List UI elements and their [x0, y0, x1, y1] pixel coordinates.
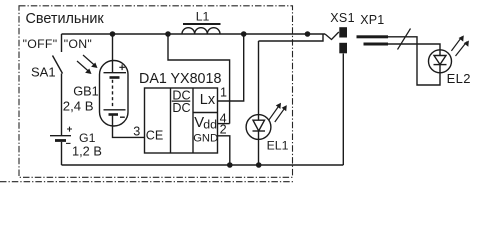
EL1 triangle [253, 120, 265, 131]
DA1 Lx cell divider [193, 112, 218, 114]
XS1 spring contact [325, 32, 339, 40]
GB1 dashed link [112, 80, 114, 107]
EL2 light arrows [451, 35, 469, 56]
wire pin2 GND drop [218, 136, 230, 165]
LED EL2 [429, 50, 452, 73]
svg-text:EL1: EL1 [267, 139, 289, 153]
wire EL1 anode to rail [259, 34, 324, 41]
EL2 cathode bar [434, 64, 447, 66]
XP1 upper pin [357, 35, 389, 38]
enclosure dash-dot box "Светильник" [19, 6, 293, 178]
node junction dot EL1 cathode on bottom rail [256, 162, 262, 168]
node junction dot GB1 top [110, 31, 116, 37]
L1 core bar [183, 23, 221, 25]
svg-text:XS1: XS1 [330, 11, 355, 25]
svg-text:dd: dd [203, 118, 217, 132]
XS1 lower contact block [339, 43, 347, 54]
G1 plus sign [67, 127, 72, 132]
node junction dot Lx riser [241, 31, 247, 37]
cable slash mark [398, 29, 411, 50]
DA1 left column divider [170, 88, 172, 153]
EL1 light arrows [269, 103, 287, 122]
svg-text:1: 1 [220, 86, 227, 100]
wire pin1 Lx riser [218, 34, 244, 101]
wire top rail [62, 33, 326, 35]
LED EL1 [246, 41, 271, 165]
svg-text:GB1: GB1 [73, 83, 99, 98]
solar arrows into GB1 [77, 55, 98, 74]
GB1 stadium outline [100, 61, 129, 127]
wire EL1 cathode lead [258, 131, 260, 165]
battery G1 [50, 127, 72, 144]
wire Vdd branch [168, 34, 230, 124]
node junction dot near XS1 [305, 31, 311, 37]
wire switch to G1 [61, 74, 63, 136]
svg-text:GND: GND [193, 132, 218, 144]
wire G1 to bottom rail [61, 142, 63, 165]
DC/DC fraction bar [172, 100, 191, 102]
wire XS1 drop [342, 54, 344, 166]
connector plug XP1 [357, 35, 389, 45]
svg-text:3: 3 [133, 125, 140, 139]
bottom full-width dash-dot line [0, 181, 293, 183]
svg-text:EL2: EL2 [447, 71, 471, 86]
inductor L1 [182, 24, 221, 34]
svg-text:"ON": "ON" [64, 37, 92, 51]
DA1 outline [145, 88, 218, 153]
EL1 cathode bar [253, 130, 266, 132]
EL2 triangle [434, 56, 446, 65]
svg-text:"OFF": "OFF" [23, 37, 58, 51]
connector socket XS1 [325, 27, 347, 53]
wire pin4 [218, 123, 230, 125]
svg-text:Светильник: Светильник [26, 11, 105, 27]
GB1 minus sign [120, 116, 125, 118]
svg-text:SA1: SA1 [31, 65, 56, 80]
GB1 top cell long plate [104, 72, 127, 74]
svg-text:DA1 YX8018: DA1 YX8018 [139, 71, 221, 87]
node junction dot Vdd branch [165, 31, 171, 37]
svg-text:2,4 В: 2,4 В [63, 98, 94, 113]
wire XP1 top contact to EL2 cathode loop [388, 37, 440, 85]
solar battery GB1 [100, 34, 129, 126]
node junction dot GND on bottom rail [227, 162, 233, 168]
svg-text:XP1: XP1 [360, 13, 384, 27]
svg-text:DC: DC [172, 101, 190, 115]
G1 positive plate [50, 135, 71, 137]
wire rail to GB1 top [112, 34, 114, 73]
EL1 circle [246, 115, 271, 140]
svg-text:2: 2 [220, 123, 227, 137]
switch SA1 fixed contact stub [61, 34, 63, 52]
wire XP1 bottom contact to EL2 anode [388, 44, 440, 56]
svg-text:1,2 В: 1,2 В [72, 144, 102, 159]
GB1 bottom cell long plate [104, 109, 126, 111]
GB1 plus sign [119, 65, 125, 71]
GB1 top cell short plate [110, 76, 120, 79]
G1 minus sign [66, 142, 71, 144]
DA1 right column divider [192, 88, 194, 153]
switch SA1 [53, 34, 63, 74]
svg-text:L1: L1 [196, 10, 210, 24]
EL2 circle [429, 50, 452, 73]
IC DA1 YX8018 box [145, 88, 218, 153]
svg-text:Lx: Lx [200, 92, 216, 108]
wire GB1 to CE pin 3 [113, 115, 145, 137]
wire bottom rail [62, 164, 344, 166]
switch SA1 lever [53, 56, 63, 74]
XS1 upper contact block [339, 27, 347, 37]
wire EL1 anode lead [258, 41, 260, 120]
svg-text:CE: CE [146, 129, 164, 143]
L1 winding [182, 28, 220, 34]
G1 negative plate [55, 139, 66, 142]
GB1 bottom cell short plate [109, 113, 119, 116]
XP1 lower pin [364, 43, 389, 46]
